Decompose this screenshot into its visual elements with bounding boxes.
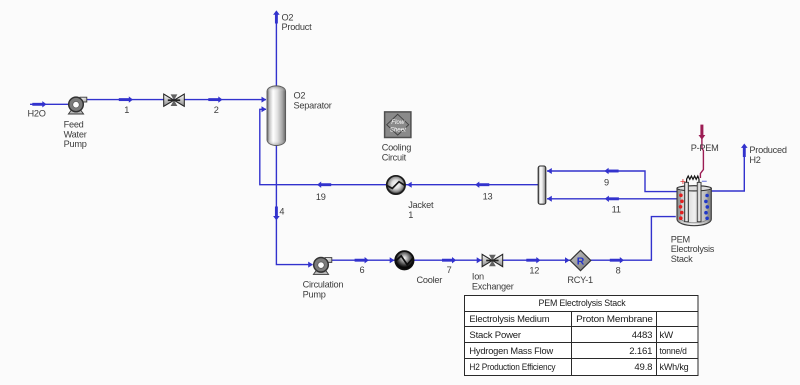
recycle block RCY-1 [570, 250, 591, 270]
pump P1 Feed Water Pump [68, 97, 86, 114]
cathode bubbles (blue) [704, 194, 709, 220]
node: stream 12 arrow [526, 257, 540, 263]
svg-text:Jacket: Jacket [408, 200, 434, 210]
node: ion exchanger inlet arrowhead [477, 257, 482, 263]
electrode left [685, 182, 689, 221]
node: stream 13 arrow left [475, 182, 489, 188]
svg-text:8: 8 [616, 265, 621, 275]
svg-text:Separator: Separator [294, 101, 332, 111]
svg-text:Proton Membrane: Proton Membrane [576, 314, 653, 325]
svg-text:Stack: Stack [671, 254, 693, 264]
node: stream 19 arrow left [317, 182, 331, 188]
heat exchanger Cooler [395, 251, 413, 269]
node: circulation pump inlet arrowhead [308, 262, 313, 268]
valve VLV-100 [164, 94, 185, 106]
svg-text:P-PEM: P-PEM [691, 143, 719, 153]
node: stream 2 arrow [208, 96, 222, 102]
svg-text:kW: kW [660, 330, 675, 341]
node: RCY-1 inlet arrowhead [565, 257, 570, 263]
node: connector stream 9 arrowhead [547, 168, 552, 174]
svg-text:Produced: Produced [749, 145, 786, 155]
anode bubbles (red) [679, 194, 684, 221]
svg-text:49.8: 49.8 [634, 362, 652, 373]
svg-text:Cooling: Cooling [382, 143, 412, 153]
sub-flowsheet icon Cooling Circuit [385, 112, 411, 138]
table: PEM Electrolysis Stack results [464, 296, 698, 376]
node: jacket inlet arrowhead left [407, 182, 412, 188]
svg-text:11: 11 [612, 205, 621, 215]
svg-text:7: 7 [447, 265, 452, 275]
wire: stream 9 PEM stack to connector [547, 171, 677, 192]
svg-text:PEM Electrolysis Stack: PEM Electrolysis Stack [539, 298, 626, 309]
node: stream 9 arrow left [604, 168, 618, 174]
svg-text:6: 6 [359, 265, 364, 275]
node: stream 19 inlet arrowhead [262, 106, 267, 112]
heat exchanger Jacket 1 [387, 176, 405, 194]
svg-text:Feed: Feed [64, 120, 84, 130]
vessel O2 Separator [267, 86, 286, 146]
svg-text:Electrolysis Medium: Electrolysis Medium [469, 314, 549, 325]
svg-text:Circulation: Circulation [303, 280, 344, 290]
node: stream 4 arrow down [273, 207, 280, 221]
wire: bottom recirculation line to PEM stack [329, 217, 676, 261]
node: O2 product arrow up [273, 10, 280, 23]
svg-text:19: 19 [316, 192, 326, 202]
wire: pump outlet to separator [84, 99, 266, 101]
svg-text:PEM: PEM [671, 234, 690, 244]
svg-text:kWh/kg: kWh/kg [660, 362, 689, 373]
node: stream 11 arrow left [605, 196, 619, 202]
node: cooler inlet arrowhead [390, 257, 395, 263]
wire: produced H2 from stack [711, 146, 744, 191]
svg-text:Flow: Flow [391, 119, 405, 126]
svg-text:4: 4 [279, 206, 284, 216]
svg-text:2.161: 2.161 [629, 346, 652, 357]
svg-text:Hydrogen Mass Flow: Hydrogen Mass Flow [469, 346, 553, 357]
svg-text:O2: O2 [282, 12, 294, 22]
svg-text:Ion: Ion [472, 272, 484, 282]
svg-text:13: 13 [483, 191, 493, 201]
svg-text:Circuit: Circuit [382, 152, 407, 162]
resistor coil [687, 176, 699, 183]
svg-text:−: − [701, 177, 707, 188]
svg-text:H2 Production Efficiency: H2 Production Efficiency [469, 362, 555, 373]
node: stream 1 arrow [119, 96, 133, 102]
node: stream 7 arrow [442, 257, 456, 263]
pump P2 Circulation Pump [313, 258, 331, 275]
node: stream 6 arrow [355, 257, 369, 263]
svg-text:Electrolysis: Electrolysis [671, 244, 715, 254]
connector bar (recycle tee) [538, 166, 546, 204]
svg-text:tonne/d: tonne/d [660, 346, 687, 357]
svg-text:4483: 4483 [632, 330, 653, 341]
svg-text:2: 2 [214, 105, 219, 115]
wire: stream 11 PEM stack to connector [547, 198, 677, 200]
svg-text:Exchanger: Exchanger [472, 281, 514, 291]
svg-text:RCY-1: RCY-1 [567, 275, 593, 285]
svg-text:Stack Power: Stack Power [469, 330, 521, 341]
svg-text:Water: Water [64, 129, 87, 139]
svg-text:9: 9 [604, 177, 609, 187]
node: stream 8 arrow [610, 257, 624, 263]
wire: separator bottom to circulation pump (stream 4) [276, 144, 312, 265]
svg-text:1: 1 [124, 105, 129, 115]
svg-text:Cooler: Cooler [417, 275, 443, 285]
node: connector stream 11 arrowhead [547, 196, 552, 202]
reactor PEM Electrolysis Stack [677, 176, 711, 226]
wire: O2 product riser [275, 14, 277, 86]
svg-text:H2: H2 [749, 155, 760, 165]
node: H2O feed arrow [32, 101, 46, 107]
wire: stream 13/19 connector through jacket to separator [260, 109, 538, 184]
svg-text:12: 12 [529, 265, 539, 275]
svg-text:Sheet: Sheet [390, 127, 406, 134]
electrode right [697, 182, 701, 221]
svg-text:Pump: Pump [64, 139, 87, 149]
node: separator feed arrowhead [262, 97, 267, 103]
svg-text:Pump: Pump [303, 290, 326, 300]
svg-text:+: + [680, 176, 686, 188]
svg-text:R: R [577, 256, 585, 268]
svg-text:O2: O2 [294, 91, 306, 101]
energy stream P-PEM [699, 125, 706, 178]
svg-text:H2O: H2O [28, 109, 46, 119]
valve Ion Exchanger [482, 254, 503, 266]
svg-text:Product: Product [282, 22, 313, 32]
svg-text:1: 1 [408, 210, 413, 220]
node: produced H2 arrow up [741, 144, 748, 158]
wire: H2O feed inlet [30, 103, 69, 105]
